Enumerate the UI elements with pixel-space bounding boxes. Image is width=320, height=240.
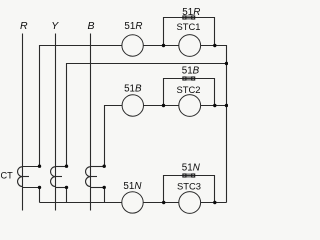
relay coil 51R <box>122 35 143 56</box>
svg-text:CT: CT <box>1 171 14 181</box>
wire Y CT bottom drop <box>66 188 68 203</box>
svg-text:STC1: STC1 <box>177 21 201 32</box>
trip coil STC3 <box>179 192 201 214</box>
wire row1 STC1 to right rail <box>201 46 227 203</box>
CT R phase winding <box>18 167 40 188</box>
junction dot row2 at rail <box>225 104 228 107</box>
CT B phase winding <box>86 167 105 188</box>
trip coil STC1 <box>179 35 201 57</box>
junction dot B CT top terminal <box>103 165 106 168</box>
svg-text:Y: Y <box>51 20 59 32</box>
wire row3 common bus to 51N <box>40 202 122 204</box>
junction dot row1 right <box>213 44 216 47</box>
junction dot R CT top terminal <box>38 165 41 168</box>
junction dot B CT bottom terminal <box>103 186 106 189</box>
wire row3 STC3 to right rail <box>201 202 227 204</box>
wire R CT bottom drop <box>39 188 41 203</box>
wire B CT bottom drop <box>104 188 106 203</box>
wire row1 51R to STC1 <box>143 45 179 47</box>
junction dot row1 left <box>162 44 165 47</box>
svg-text:STC3: STC3 <box>177 180 201 191</box>
wire STC2 contact loop <box>164 79 215 106</box>
svg-text:R: R <box>20 20 28 32</box>
CT Y phase winding <box>51 167 67 188</box>
svg-text:STC2: STC2 <box>177 84 201 95</box>
junction dot row2 left <box>162 104 165 107</box>
svg-text:51R: 51R <box>124 21 142 32</box>
svg-text:B: B <box>87 20 94 32</box>
contact 51B symbol <box>183 77 195 80</box>
junction dot Y CT bottom terminal <box>65 186 68 189</box>
junction dot Y wire at rail <box>225 62 228 65</box>
svg-text:51N: 51N <box>123 181 142 192</box>
wire row2 51B to STC2 <box>144 105 179 107</box>
contact 51N symbol <box>183 174 195 177</box>
wire phase Y vertical <box>55 34 57 211</box>
junction dot row3 right <box>213 201 216 204</box>
svg-text:51B: 51B <box>182 65 200 76</box>
wire STC3 contact loop <box>164 176 215 203</box>
wire B CT secondary riser to 51B <box>105 106 123 167</box>
wire phase B vertical <box>90 34 92 211</box>
junction dot row2 right <box>213 104 216 107</box>
junction dot row3 left <box>162 201 165 204</box>
wire phase R vertical <box>22 34 24 211</box>
svg-text:51N: 51N <box>182 162 201 173</box>
relay coil 51N <box>122 192 143 213</box>
wire R CT secondary riser to 51R <box>40 46 122 167</box>
contact 51R symbol <box>183 16 195 19</box>
wire Y CT secondary to right rail <box>67 64 227 167</box>
wire STC1 contact loop <box>164 18 215 46</box>
trip coil STC2 <box>179 95 201 117</box>
wire row3 51N to STC3 <box>143 202 179 204</box>
relay coil 51B <box>122 95 143 116</box>
junction dot Y CT top terminal <box>65 165 68 168</box>
wire row2 STC2 to right rail <box>201 105 227 107</box>
junction dot R CT bottom terminal <box>38 186 41 189</box>
svg-text:51B: 51B <box>124 83 142 94</box>
svg-text:51R: 51R <box>182 7 200 18</box>
